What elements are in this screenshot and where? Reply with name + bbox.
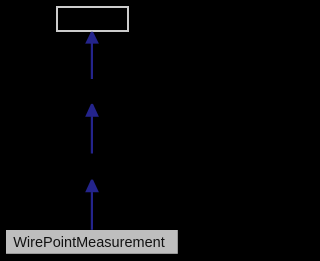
svg-text:WirePointMeasurement: WirePointMeasurement — [13, 235, 165, 251]
arrow 2 shaft — [91, 117, 93, 154]
current class node box — [6, 230, 178, 254]
arrow 3 shaft — [91, 192, 93, 230]
arrow 1 shaft — [91, 44, 93, 80]
base class node (empty box, top) — [57, 7, 128, 31]
inheritance graph canvas — [0, 0, 184, 261]
arrow 1 (top) head — [85, 32, 99, 44]
arrow 3 (bottom) head — [85, 180, 99, 193]
arrow 2 (middle) head — [85, 104, 99, 117]
